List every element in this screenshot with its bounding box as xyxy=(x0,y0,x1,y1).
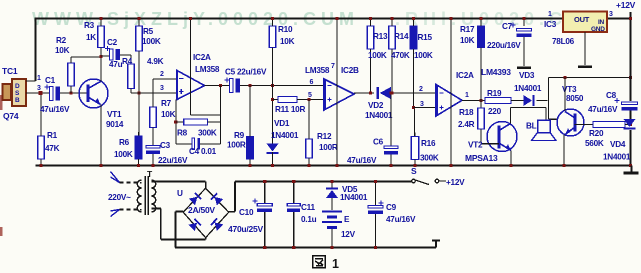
svg-text:560K: 560K xyxy=(585,139,604,148)
svg-text:220u/16V: 220u/16V xyxy=(487,41,521,50)
wire R12 top lead xyxy=(308,100,310,140)
svg-text:78L06: 78L06 xyxy=(552,37,575,46)
diode VD3 1N4001 xyxy=(524,95,535,106)
diode VD2 1N4001 xyxy=(376,87,391,99)
wire IC2B output xyxy=(354,92,374,94)
comparator IC2A LM4393 xyxy=(436,85,462,117)
svg-text:3: 3 xyxy=(37,85,41,92)
capacitor C6 47u/16V xyxy=(384,146,398,154)
svg-text:100K: 100K xyxy=(414,51,433,60)
wire feedback top xyxy=(191,114,221,116)
resistor R5 100K xyxy=(136,22,143,55)
capacitor C7 220u/16V xyxy=(511,23,532,37)
wire right rail lower xyxy=(630,130,632,166)
resistor R17 10K xyxy=(478,22,485,52)
svg-text:R7: R7 xyxy=(161,99,172,108)
svg-text:R8: R8 xyxy=(177,129,188,138)
svg-text:U: U xyxy=(177,189,183,198)
svg-text:5: 5 xyxy=(308,92,312,99)
svg-text:GND: GND xyxy=(591,26,605,33)
wire R17 to R18 xyxy=(480,48,482,109)
transistor VT3 8050 xyxy=(557,109,584,136)
resistor R9 100R xyxy=(247,133,254,164)
resistor R8 300K xyxy=(184,119,208,125)
svg-text:470u/25V: 470u/25V xyxy=(228,224,263,234)
wire C6 top lead xyxy=(390,93,392,146)
svg-text:22u/16V: 22u/16V xyxy=(158,156,188,165)
resistor R1 47K xyxy=(38,132,45,163)
ground symbol IC3 xyxy=(578,66,592,69)
sensor TC1 Q74 xyxy=(3,84,12,100)
svg-text:R10: R10 xyxy=(278,25,293,34)
svg-text:100R: 100R xyxy=(227,141,246,150)
svg-text:7: 7 xyxy=(331,63,335,70)
wire VT1 collector xyxy=(100,48,102,82)
svg-text:D: D xyxy=(15,83,20,90)
svg-text:3: 3 xyxy=(609,11,613,18)
bridge diode top-left xyxy=(189,192,202,205)
node TC1 output junction xyxy=(39,91,43,95)
resistor R2 10K xyxy=(68,59,75,90)
wire R14 bottom lead xyxy=(391,49,393,93)
svg-text:OUT: OUT xyxy=(574,15,590,24)
wire TC1 pin3 to C1 xyxy=(26,92,50,94)
svg-text:R18: R18 xyxy=(459,108,474,117)
svg-text:C3: C3 xyxy=(160,141,171,150)
svg-text:C2: C2 xyxy=(107,38,118,47)
wire C11 top lead xyxy=(293,182,295,204)
svg-text:VT1: VT1 xyxy=(107,110,122,119)
wire comparator pin3 xyxy=(414,107,437,109)
svg-text:47u/16V: 47u/16V xyxy=(347,156,377,165)
svg-text:VT2: VT2 xyxy=(468,141,483,150)
resistor R11 10R xyxy=(278,97,297,103)
wire secondary top to bridge xyxy=(152,181,206,183)
caption fig 1 xyxy=(313,256,326,268)
resistor R19 220 xyxy=(485,98,511,104)
wire C7 top lead xyxy=(523,19,525,27)
wire supply ground rail xyxy=(175,247,436,249)
svg-text:9014: 9014 xyxy=(106,120,124,129)
svg-text:1: 1 xyxy=(548,11,552,18)
wire feedback right side xyxy=(220,86,222,145)
svg-text:S: S xyxy=(411,166,417,176)
op-amp IC2B LM358 xyxy=(324,79,354,110)
wire C4 left xyxy=(176,143,194,145)
transistor VT2 MPSA13 xyxy=(487,122,517,152)
capacitor C10 470u/25V xyxy=(253,199,273,212)
svg-text:47K: 47K xyxy=(45,144,60,153)
svg-text:R9: R9 xyxy=(234,131,245,140)
wire IC2A output xyxy=(205,85,230,87)
svg-text:C6: C6 xyxy=(373,138,384,147)
wire R1 top lead xyxy=(40,95,42,136)
svg-text:R15: R15 xyxy=(418,33,433,42)
svg-text:R12: R12 xyxy=(317,132,332,141)
junction output-feedback xyxy=(219,84,222,87)
svg-text:C7: C7 xyxy=(502,22,513,31)
svg-text:47u/16V: 47u/16V xyxy=(588,105,618,114)
wire IC2A V+ pin xyxy=(190,19,192,116)
svg-text:C11: C11 xyxy=(301,203,316,212)
svg-text:+12V: +12V xyxy=(446,178,465,187)
svg-text:220V~: 220V~ xyxy=(108,193,131,202)
wire VT2 collector xyxy=(510,108,512,124)
wire to C2 xyxy=(101,55,110,57)
svg-text:LM358: LM358 xyxy=(195,65,220,74)
wire bridge minus drop xyxy=(175,212,177,248)
svg-text:1N4001: 1N4001 xyxy=(365,111,393,120)
wire bridge plus xyxy=(229,211,235,213)
svg-text:1N4001: 1N4001 xyxy=(340,193,368,202)
wire bridge top vertex xyxy=(205,182,207,189)
svg-text:R4: R4 xyxy=(122,57,133,66)
wire right rail upper xyxy=(630,19,632,102)
wire VT2 collector to speaker xyxy=(511,107,547,109)
svg-text:R6: R6 xyxy=(119,138,130,147)
resistor R18 2.4R xyxy=(478,104,485,133)
wire VT3 collector to +12V xyxy=(564,78,566,112)
wire right rail mid xyxy=(630,111,632,120)
svg-text:C8: C8 xyxy=(606,91,617,100)
junction R2-base xyxy=(69,91,72,94)
svg-text:1N4001: 1N4001 xyxy=(271,131,299,140)
wire R13 bottom lead xyxy=(370,49,372,93)
wire R11 to IC2B pin5 xyxy=(297,99,324,101)
wire comparator output xyxy=(462,100,485,102)
svg-text:8050: 8050 xyxy=(566,94,584,103)
svg-text:10K: 10K xyxy=(460,36,475,45)
svg-text:1: 1 xyxy=(465,92,469,99)
svg-text:470K: 470K xyxy=(391,51,410,60)
svg-text:2: 2 xyxy=(419,86,423,93)
svg-text:R16: R16 xyxy=(421,139,436,148)
wire C10 top lead xyxy=(264,182,266,204)
wire speaker top lead xyxy=(545,108,547,121)
diode VD5 1N4001 xyxy=(326,188,338,198)
wire +12V stub xyxy=(630,12,632,19)
svg-text:Q74: Q74 xyxy=(3,111,19,121)
svg-text:R19: R19 xyxy=(487,89,502,98)
wire IC2A inverting input xyxy=(153,78,177,80)
svg-text:IC2A: IC2A xyxy=(456,71,474,80)
svg-text:VD1: VD1 xyxy=(274,119,290,128)
wire R5 to R6 xyxy=(138,51,140,136)
junction R1-ground xyxy=(39,164,42,167)
junction collector-C2 xyxy=(99,55,102,58)
capacitor C8 47u/16V xyxy=(615,98,638,110)
wire bridge bottom vertex xyxy=(205,238,207,240)
wire +12V rail xyxy=(235,181,412,183)
svg-text:2.4R: 2.4R xyxy=(458,120,475,129)
svg-text:C9: C9 xyxy=(386,203,397,212)
svg-text:1: 1 xyxy=(37,75,41,82)
capacitor C3 22u/16V xyxy=(146,146,160,154)
svg-text:4.9K: 4.9K xyxy=(147,57,164,66)
svg-text:B: B xyxy=(15,97,20,104)
resistor R10 10K xyxy=(269,22,276,52)
svg-text:VD2: VD2 xyxy=(368,101,384,110)
svg-text:1K: 1K xyxy=(86,33,96,42)
capacitor C1 47u/16V xyxy=(45,85,60,101)
speaker BL xyxy=(538,120,551,133)
wire bridge minus xyxy=(176,211,184,213)
svg-text:R5: R5 xyxy=(143,27,154,36)
svg-text:3: 3 xyxy=(420,101,424,108)
resistor R4 4.7K xyxy=(128,60,135,93)
wire VD5 top lead xyxy=(331,182,333,188)
wire latch to +12V rail xyxy=(549,77,631,79)
wire R10 to VD1 xyxy=(272,48,274,144)
svg-text:R14: R14 xyxy=(394,32,409,41)
wire VD2 to comparator pin2 xyxy=(391,92,436,94)
svg-text:R11 10R: R11 10R xyxy=(275,105,305,114)
wire ground bus xyxy=(36,164,633,166)
svg-text:BL: BL xyxy=(526,122,537,131)
resistor R16 300K xyxy=(411,133,419,164)
svg-text:IN: IN xyxy=(598,19,605,26)
svg-text:R20: R20 xyxy=(589,129,604,138)
bridge rectifier U 2A/50V xyxy=(183,188,229,238)
svg-text:C4 0.01: C4 0.01 xyxy=(189,147,217,156)
wire feedback left side xyxy=(175,100,177,145)
svg-text:12V: 12V xyxy=(341,230,356,239)
resistor R15 100K xyxy=(410,22,417,53)
svg-text:C5 22u/16V: C5 22u/16V xyxy=(225,68,267,77)
svg-text:2: 2 xyxy=(160,71,164,78)
svg-text:47u: 47u xyxy=(109,60,123,69)
wire R2 top to collector node xyxy=(71,56,101,58)
svg-text:10K: 10K xyxy=(161,110,176,119)
bridge diode top-right xyxy=(210,193,223,206)
svg-text:220: 220 xyxy=(488,107,502,116)
AC input arrows 220V xyxy=(111,172,120,183)
wire latch vertical xyxy=(548,78,550,120)
wire AC top lead xyxy=(120,182,141,184)
resistor R6 100K xyxy=(135,132,142,163)
capacitor C11 0.1u xyxy=(287,204,300,212)
wire V+ top bus left of IC3 xyxy=(36,17,564,19)
ground symbol C7 xyxy=(517,67,531,70)
svg-text:3: 3 xyxy=(160,85,164,92)
svg-text:6: 6 xyxy=(310,79,314,86)
svg-text:100K: 100K xyxy=(114,150,133,159)
svg-text:+12V: +12V xyxy=(616,0,636,10)
svg-text:300K: 300K xyxy=(198,129,217,138)
svg-text:1: 1 xyxy=(332,257,339,271)
wire IC3 GND lead xyxy=(584,32,586,65)
svg-text:E: E xyxy=(344,215,350,224)
resistor R14 470K xyxy=(389,22,396,53)
svg-text:0.1u: 0.1u xyxy=(301,215,317,224)
wire C7 to ground symbol xyxy=(523,37,525,66)
resistor R13 100K xyxy=(367,22,374,53)
resistor R7 10K xyxy=(150,103,157,132)
wire secondary bottom xyxy=(152,208,161,210)
svg-text:R3: R3 xyxy=(84,21,95,30)
svg-text:10K: 10K xyxy=(280,37,295,46)
svg-text:MPSA13: MPSA13 xyxy=(465,153,498,163)
wire to bridge bottom vertex xyxy=(161,239,206,241)
regulator IC3 78L06 xyxy=(563,12,607,33)
diode VD1 1N4001 xyxy=(267,144,279,155)
wire VT3 emitter to ground xyxy=(563,135,565,166)
wire top bus IC3 to +12V corner xyxy=(607,17,631,19)
ground symbol right xyxy=(631,166,633,172)
svg-text:R13: R13 xyxy=(373,32,388,41)
svg-text:IC2B: IC2B xyxy=(341,66,359,75)
wire comparator power vertical xyxy=(450,19,452,166)
wire VT1 emitter to ground xyxy=(100,105,102,166)
capacitor C5 22u/16V xyxy=(225,78,240,93)
capacitor C2 47u xyxy=(105,46,120,60)
svg-text:100R: 100R xyxy=(319,143,338,152)
wire TC1 pin1 to V+ xyxy=(26,80,36,82)
svg-text:IC3: IC3 xyxy=(544,20,557,29)
wire VD3 to latch node xyxy=(537,100,548,102)
wire R2 bottom lead xyxy=(70,86,72,93)
svg-text:1N4001: 1N4001 xyxy=(514,84,542,93)
wire to VT3 base xyxy=(549,118,559,120)
capacitor C4 0.01 xyxy=(192,138,195,150)
svg-text:2A/50V: 2A/50V xyxy=(188,205,215,215)
wire C4 right xyxy=(200,143,221,145)
svg-text:LM358: LM358 xyxy=(305,66,330,75)
diode VD4 1N4001 xyxy=(624,119,636,130)
transistor VT1 9014 xyxy=(79,79,108,108)
op-amp IC2A LM358 xyxy=(177,71,205,100)
wire VT2 emitter to ground xyxy=(510,151,512,166)
resistor R3 1K xyxy=(98,22,105,52)
svg-text:C10: C10 xyxy=(239,208,254,217)
wire AC bottom lead xyxy=(120,209,141,211)
wire to IC2A noninverting input xyxy=(131,92,177,94)
svg-text:1N4001: 1N4001 xyxy=(603,153,631,162)
svg-text:R2: R2 xyxy=(56,36,67,45)
wire IC2B power rail vertical xyxy=(336,19,338,166)
svg-text:R17: R17 xyxy=(460,25,475,34)
bridge diode bottom-left xyxy=(189,218,202,231)
junction R10-bus xyxy=(271,17,274,20)
svg-text:100K: 100K xyxy=(368,51,387,60)
battery E 12V xyxy=(322,211,342,230)
junction R5-R6-input xyxy=(137,91,140,94)
bridge diode bottom-right xyxy=(210,218,223,231)
svg-text:IC2A: IC2A xyxy=(193,53,211,62)
svg-text:LM4393: LM4393 xyxy=(481,67,511,77)
wire C9 top lead xyxy=(375,182,377,206)
svg-text:47u/16V: 47u/16V xyxy=(386,215,416,224)
wire R18 to VT2 base xyxy=(481,143,499,145)
wire R9 top lead xyxy=(249,86,251,137)
junction R3-bus xyxy=(99,17,102,20)
svg-text:TC1: TC1 xyxy=(2,66,18,76)
wire left border vertical to TC1 pin1 xyxy=(35,18,37,82)
svg-text:R1: R1 xyxy=(47,131,58,140)
wire C1 to VT1 base xyxy=(60,92,88,94)
svg-text:C1: C1 xyxy=(45,76,56,85)
svg-text:100K: 100K xyxy=(142,37,161,46)
svg-text:VD4: VD4 xyxy=(610,140,626,149)
resistor R12 100R xyxy=(306,135,313,162)
svg-text:10K: 10K xyxy=(55,46,70,55)
svg-text:VT3: VT3 xyxy=(562,85,577,94)
svg-text:47u/16V: 47u/16V xyxy=(40,105,70,114)
transformer T xyxy=(137,176,155,215)
junction R5-bus xyxy=(137,17,140,20)
wire C2 to R4 xyxy=(120,54,131,56)
wire C5 to IC2B pin6 xyxy=(240,85,324,87)
wire VT3 base to R20 xyxy=(575,124,594,126)
svg-text:300K: 300K xyxy=(420,154,439,163)
resistor R20 560K xyxy=(593,122,625,128)
wire to R16 xyxy=(414,108,416,137)
wire R15 lead xyxy=(413,49,415,108)
svg-text:VD3: VD3 xyxy=(519,71,535,80)
capacitor C9 47u/16V xyxy=(368,201,384,214)
